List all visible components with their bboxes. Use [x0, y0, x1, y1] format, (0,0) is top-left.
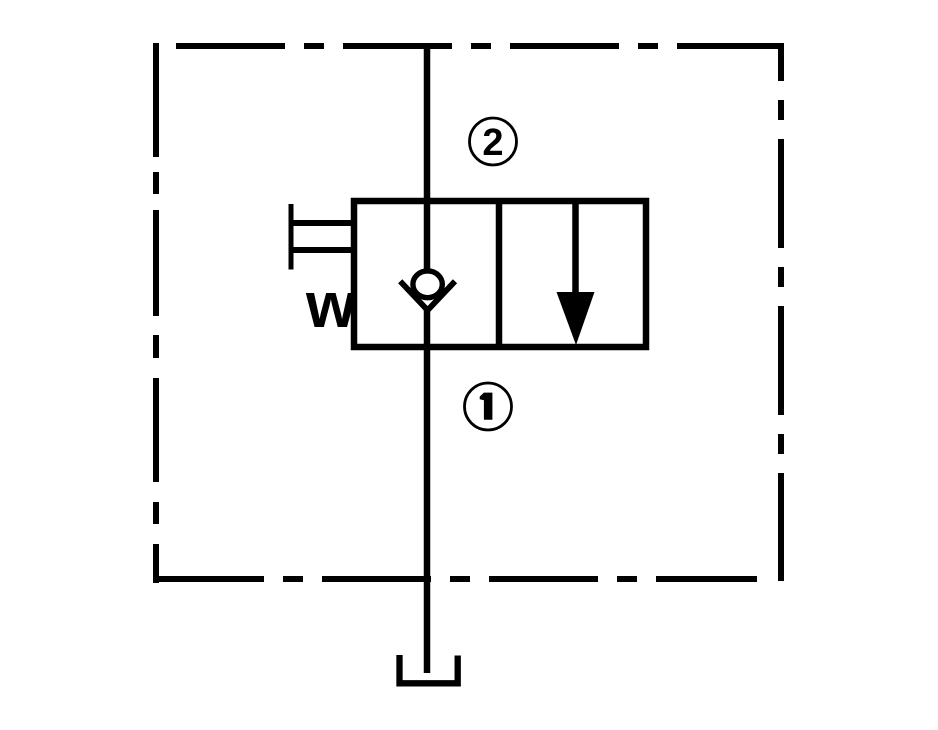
tank symbol — [400, 655, 458, 683]
check valve seat — [400, 281, 455, 310]
check valve ball — [413, 271, 442, 298]
flow arrow head — [557, 292, 595, 345]
svg-text:w: w — [305, 269, 356, 341]
port label 2 circle — [470, 118, 517, 165]
envelope top border (dash-dot) — [176, 43, 784, 49]
flow arrow shaft — [572, 201, 579, 296]
valve body divider — [496, 201, 503, 347]
envelope left border (dash-dot) — [153, 43, 159, 583]
envelope bottom border (dash-dot) — [155, 576, 757, 582]
port label 1 text — [480, 393, 493, 420]
pilot actuator bar — [289, 204, 294, 270]
envelope right border (dash-dot) — [778, 43, 784, 581]
pilot actuator lower line — [289, 247, 357, 253]
svg-text:2: 2 — [482, 122, 503, 164]
wire port 2 line — [424, 43, 431, 271]
valve body outline — [354, 201, 646, 347]
port label 1 circle — [465, 383, 512, 430]
pilot actuator upper line — [289, 220, 357, 226]
wire port 1 line — [424, 306, 431, 673]
